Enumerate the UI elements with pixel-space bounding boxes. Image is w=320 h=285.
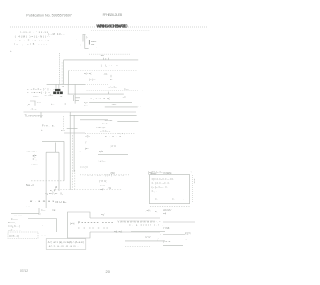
wire	[125, 240, 165, 242]
wire long horizontal	[64, 59, 139, 61]
stub riser	[54, 143, 56, 153]
svg-text:=·: =·	[155, 197, 158, 201]
svg-text:. . . .: . . . .	[41, 234, 46, 237]
water valve riser	[46, 152, 59, 208]
svg-text:/ L: / L	[60, 192, 63, 196]
svg-text:=/ =/: =/ =/	[145, 235, 151, 239]
dashed row	[85, 132, 136, 134]
svg-text:=d. =d.: =d. =d.	[114, 230, 123, 234]
svg-text:. ,: . ,	[185, 237, 187, 240]
svg-text:( 4(M) )=(L-N)(--: ( 4(M) )=(L-N)(--	[15, 34, 50, 38]
dashed row	[31, 180, 64, 182]
svg-text:=·, ·: =·, ·	[152, 189, 157, 193]
svg-text:F2?'!: F2?'!	[185, 232, 191, 236]
wire	[131, 231, 165, 233]
svg-text:+ -: + -	[51, 103, 54, 106]
wire with text	[11, 213, 39, 215]
dashed riser short	[62, 116, 64, 131]
svg-text:~~~·: ~~~·	[33, 95, 39, 98]
svg-text:=. L =/=/! /.! .: =. L =/=/! /.! .	[129, 223, 163, 227]
door switch symbol	[30, 101, 36, 106]
svg-text:==: ==	[91, 44, 95, 47]
wire	[163, 234, 185, 236]
svg-text:~, ~·~ =: ~, ~·~ =	[90, 97, 105, 100]
dotted riser	[61, 62, 63, 84]
svg-text:=·: =·	[172, 197, 175, 201]
svg-text:=~~: =~~	[124, 88, 129, 91]
svg-text:=(~·=(: =(~·=(	[84, 71, 91, 75]
svg-text:~ —: ~ —	[100, 184, 105, 187]
title underline	[91, 30, 150, 32]
svg-text:(~·((=·(~·=~ .·: (~·((=·(~·=~ .·	[148, 170, 165, 174]
door switch S2	[27, 101, 42, 106]
svg-text:*≈*: *≈*	[84, 101, 88, 105]
svg-text:(~ (~·: (~ (~·	[89, 78, 96, 82]
footnote box	[46, 239, 86, 250]
wire	[163, 221, 195, 223]
svg-text:-: -	[160, 233, 161, 236]
tick	[110, 75, 112, 77]
svg-text:~'.~ =~: ~'.~ =~	[108, 85, 117, 89]
main control board outline	[68, 212, 105, 238]
wire	[105, 106, 138, 108]
riser stub	[56, 84, 59, 88]
svg-text:j=~: j=~	[84, 147, 89, 151]
svg-text:=4': =4'	[100, 187, 104, 191]
svg-text:= = == = ==: = = == = ==	[78, 227, 108, 230]
svg-text:FFHB26-2LEB: FFHB26-2LEB	[103, 13, 123, 17]
svg-text:| L·- ~: | L·- ~	[101, 64, 118, 68]
riser wires below bus	[68, 84, 75, 103]
svg-text:~ . ~: ~ . ~	[102, 122, 108, 125]
control board band	[78, 218, 163, 232]
svg-text:·: ·	[183, 197, 184, 201]
blob notch	[58, 92, 61, 95]
svg-text:=4: =4	[163, 212, 167, 216]
svg-text:·=·: ·=·	[60, 95, 63, 98]
wire	[64, 132, 85, 134]
svg-text:=—: =—	[41, 209, 46, 212]
svg-text:{=¾: {=¾	[70, 221, 75, 225]
dashed riser	[58, 53, 60, 84]
svg-text:—= ... . . . .: —= ... . . . .	[8, 229, 21, 232]
connector strip dashed	[192, 175, 194, 202]
wire	[98, 153, 128, 155]
svg-text:S:e ~=: S:e ~=	[26, 183, 34, 187]
svg-text:A.'(: .a!.:t. (a), m. la(A) /: A.'(: .a!.:t. (a), m. la(A) / .(A..a.m)	[48, 240, 84, 244]
svg-text:. =¼: . =¼	[145, 208, 151, 212]
ice maker box	[150, 175, 190, 204]
svg-text:(--M 43--.: (--M 43--.	[48, 32, 65, 36]
svg-text:~©~: ~©~	[85, 134, 91, 138]
riser	[73, 115, 75, 172]
svg-text:Publication No. 5995579697: Publication No. 5995579697	[26, 14, 72, 18]
wire	[28, 219, 57, 233]
defrost timer dashed box	[8, 232, 38, 239]
svg-text:( '/\' =(: ( '/\' =(	[99, 179, 106, 183]
dotted wire row	[69, 70, 138, 72]
sensor dotted row	[89, 53, 130, 55]
svg-text:|· =· =·: |· =· =·	[163, 239, 171, 243]
wire	[163, 245, 183, 247]
svg-text:TLvvvvvvvvv: TLvvvvvvvvv	[25, 114, 44, 118]
wire	[68, 92, 124, 95]
svg-text:=·: =·	[110, 79, 113, 82]
switch stem	[88, 40, 90, 45]
svg-text:~=~: ~=~	[112, 104, 117, 107]
svg-text:≡/=: ≡/=	[33, 153, 37, 157]
svg-text:d.b M./: d.b M./	[163, 208, 171, 212]
blob notch	[55, 92, 58, 95]
svg-text:07/12: 07/12	[20, 269, 28, 273]
dark blob right	[53, 92, 63, 95]
svg-text:. ~.~ .~~ .((=).~ ~.~: . ~.~ .~~ .((=).~ ~.~	[84, 173, 124, 177]
long bus wire	[24, 111, 137, 113]
svg-text:Fre. a.: Fre. a.	[42, 123, 55, 127]
svg-text:~ =·=~ ~: ~ =·=~ ~	[100, 130, 111, 133]
svg-text:I 'l Ml.: I 'l Ml.	[163, 226, 170, 230]
page background	[0, 0, 218, 285]
svg-text:, %: , %	[107, 186, 111, 190]
svg-text:. — . — .: . — . — .	[26, 150, 37, 153]
svg-text:=y': =y'	[101, 212, 105, 216]
dispenser control box outline	[68, 212, 91, 238]
svg-text:·: ·	[96, 47, 97, 50]
svg-text:- — -: - — -	[31, 163, 37, 166]
svg-text:~·~: ~·~	[37, 101, 41, 104]
svg-text:=Ξ: =Ξ	[52, 208, 56, 212]
svg-text:·=·=·: ·=·=·	[193, 178, 196, 184]
svg-text:↑: ↑	[40, 213, 41, 216]
defrost thermostat T symbol	[74, 95, 81, 101]
defrost timer box outline	[8, 232, 38, 239]
svg-text:..=: ..=	[27, 103, 30, 106]
wire	[117, 120, 138, 122]
svg-text:≈·≈ ( =: ≈·≈ ( =	[80, 165, 88, 169]
svg-text:(W): (W)	[111, 171, 115, 175]
defrost limit switch flag	[76, 35, 89, 49]
svg-text:=——.: =——.	[8, 222, 16, 225]
svg-text:=·~: =·~	[61, 129, 65, 132]
svg-text:=¯,: =¯,	[33, 157, 37, 161]
wire corner down	[68, 71, 70, 85]
svg-text:WIRING SCHEMATIC: WIRING SCHEMATIC	[97, 24, 128, 29]
svg-text:p!: p!	[55, 185, 57, 189]
user interface dark block	[55, 89, 60, 91]
dotted continuation	[85, 84, 108, 86]
svg-text:·==·: ·==·	[103, 73, 108, 76]
dashed riser	[71, 135, 73, 190]
svg-text:. .. . ...: . .. . ...	[14, 214, 22, 217]
svg-text:=.: =.	[155, 211, 158, 214]
svg-text:.a!.:t. a..m .A .a m ..: .a!.:t. a..m .A .a m ..	[48, 244, 79, 248]
wire	[89, 102, 132, 104]
drop wire	[40, 112, 42, 118]
svg-text:20: 20	[106, 269, 111, 274]
svg-text:. . .: . . .	[27, 205, 31, 208]
svg-text:: + i ~ .: : + i ~ .	[98, 159, 106, 163]
ice maker feed corner	[42, 141, 64, 180]
connector ticks on wire	[104, 58, 109, 60]
svg-text:F=T-..=|: F=T-..=|	[10, 234, 20, 238]
svg-text:·:: ·:	[191, 171, 193, 174]
dashed riser right	[74, 170, 76, 190]
svg-text:=(: =(	[107, 96, 110, 100]
svg-text:~ ~=~=|·|·~: ~ ~=~=|·|·~	[27, 91, 50, 95]
wire	[80, 119, 108, 121]
riser wires	[69, 112, 71, 190]
dotted feeder row	[55, 189, 122, 191]
svg-text:~=: ~=	[123, 96, 127, 99]
dotted feeder	[87, 90, 138, 92]
dotted rule	[10, 26, 207, 28]
svg-text:==: ==	[101, 55, 105, 58]
riser	[38, 208, 40, 215]
svg-text:· ·: · ·	[138, 106, 141, 109]
svg-text:VWWWWWWWWWWA-.~: VWWWWWWWWWWA-.~	[118, 219, 161, 223]
wire corner down	[63, 60, 65, 85]
svg-text:=± /~! &~: =± /~! &~	[55, 200, 67, 204]
dashed row below box	[150, 205, 190, 207]
svg-text:. =. ~·: . =. ~·	[30, 108, 37, 111]
wire	[47, 83, 85, 85]
svg-text:·.: ·.	[80, 150, 82, 153]
dotted connector row	[80, 174, 130, 176]
svg-text:~¡, =~/ \ =·: ~¡, =~/ \ =·	[45, 192, 58, 196]
svg-text:·=: ·=	[62, 85, 65, 88]
wire short	[67, 128, 78, 130]
svg-text:; rr rr: ; rr rr	[110, 144, 116, 148]
svg-text:|-: |-	[86, 35, 88, 39]
svg-text:=/=: =/=	[99, 150, 103, 154]
wire	[70, 114, 137, 116]
svg-text:r-xx-x . ' xx-xx: r-xx-x . ' xx-xx	[20, 30, 49, 34]
control board band edges	[90, 218, 160, 232]
svg-text:=.=¿ h ... |: =.=¿ h ... |	[8, 224, 21, 228]
dashed wire	[125, 246, 150, 248]
